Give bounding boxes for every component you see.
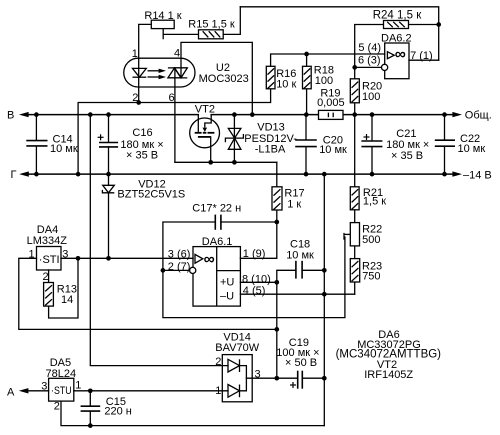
- opamp DA6.1: [190, 247, 241, 307]
- junction B rail / supply vertical: [88, 112, 93, 117]
- wire C18 right: [302, 269, 324, 271]
- svg-text:4: 4: [174, 48, 180, 60]
- wire DA5 pin1 to VD14 pin1: [74, 390, 228, 392]
- junction C18 right / -14V net: [322, 268, 327, 273]
- junction R18-R19-C20 / Obsh rail: [304, 112, 309, 117]
- wire C17 left to inverting node: [163, 222, 215, 270]
- svg-text:6: 6: [169, 92, 175, 104]
- junction VT2 gate / gate net: [208, 160, 213, 165]
- junction C16 top / B rail: [106, 112, 111, 117]
- wire R14 bottom stub: [162, 29, 164, 39]
- junction C16 bottom-VD12 / G rail: [106, 172, 111, 177]
- junction R18 top / 5(4) input: [304, 52, 309, 57]
- svg-text:R24 1,5 к: R24 1,5 к: [373, 10, 422, 22]
- node G arrow: [19, 171, 29, 176]
- resistor R23: [350, 259, 359, 282]
- optocoupler U2 body: [124, 58, 195, 87]
- svg-text:VT2: VT2: [195, 104, 215, 116]
- svg-text:100: 100: [315, 75, 333, 87]
- svg-text:2 (7): 2 (7): [168, 261, 191, 273]
- wire R15 right lead to top: [223, 7, 240, 35]
- diode VD14 dual: [222, 355, 252, 402]
- wire R21 to R22: [354, 210, 356, 223]
- svg-text:+U: +U: [220, 277, 234, 289]
- svg-text:BAV70W: BAV70W: [215, 342, 259, 354]
- svg-text:4 (5): 4 (5): [243, 285, 266, 297]
- wire C14 top lead: [35, 115, 37, 140]
- svg-text:C16: C16: [132, 127, 152, 139]
- svg-text:–U: –U: [220, 291, 234, 303]
- junction pin2 net / G rail: [76, 172, 81, 177]
- wire R14 to R15: [163, 33, 198, 35]
- capacitor C22: [435, 140, 455, 146]
- optocoupler U2 triac: [168, 68, 187, 78]
- svg-text:7 (1): 7 (1): [410, 50, 433, 62]
- junction -14V net vertical / rail: [322, 172, 327, 177]
- svg-text:1 (9): 1 (9): [243, 248, 266, 260]
- junction C22 top / Obsh rail: [442, 112, 447, 117]
- resistor R19 shunt: [319, 110, 344, 119]
- svg-text:750: 750: [362, 271, 380, 283]
- capacitor C16: [98, 134, 119, 147]
- wire gate net y162: [175, 161, 277, 163]
- junction pin 8(10) / +U net: [274, 280, 279, 285]
- wire 3(6) line: [61, 257, 193, 259]
- wire R24 right lead: [409, 24, 439, 26]
- opamp DA6.2: [382, 43, 410, 79]
- svg-text:10 к: 10 к: [276, 78, 296, 90]
- svg-text:0,005: 0,005: [317, 97, 345, 109]
- svg-text:1: 1: [132, 48, 138, 60]
- svg-text:BZT52C5V1S: BZT52C5V1S: [117, 188, 185, 200]
- resistor R15: [199, 30, 224, 39]
- wire R23 bottom to -U pin: [354, 282, 356, 294]
- junction C20 bottom / -14V rail: [304, 172, 309, 177]
- wire +U net vertical: [276, 282, 278, 378]
- svg-text:220 н: 220 н: [104, 406, 131, 418]
- junction C15 top / DA5 pin1 line: [88, 388, 93, 393]
- wire C22 top lead: [444, 115, 446, 140]
- capacitor C17: [215, 215, 221, 230]
- svg-text:MOC3023: MOC3023: [199, 73, 249, 85]
- wire C19 right: [302, 377, 324, 379]
- resistor R18: [303, 66, 312, 89]
- optocoupler U2 emission arrows: [148, 69, 167, 80]
- svg-text:∞: ∞: [395, 46, 406, 63]
- wire 6(3) input: [355, 66, 382, 68]
- svg-text:DA6.1: DA6.1: [202, 236, 233, 248]
- svg-text:C17* 22 н: C17* 22 н: [192, 203, 241, 215]
- svg-text:5 (4): 5 (4): [358, 42, 381, 54]
- wire C15 top lead: [89, 391, 91, 406]
- junction C22 bottom / -14V rail: [442, 172, 447, 177]
- svg-text:× 35 В: × 35 В: [126, 150, 158, 162]
- junction inverting input node: [161, 268, 166, 273]
- resistor R16: [266, 66, 275, 89]
- svg-text:1,5 к: 1,5 к: [363, 196, 386, 208]
- svg-text:Г: Г: [11, 169, 17, 181]
- svg-text:LM334Z: LM334Z: [27, 235, 68, 247]
- wire VT2 gate exit: [210, 137, 212, 162]
- svg-text:14: 14: [61, 294, 73, 306]
- svg-text:2: 2: [132, 92, 138, 104]
- svg-text:2: 2: [43, 271, 49, 283]
- wire R17 bottom lead: [276, 210, 278, 222]
- svg-text:∞: ∞: [204, 251, 215, 268]
- junction 4(5) line / -14V net: [322, 292, 327, 297]
- svg-text:8 (10): 8 (10): [242, 274, 271, 286]
- junction C19 right / -14V net: [322, 376, 327, 381]
- wire R21 top lead from Obsh rail: [354, 115, 356, 187]
- wire VD12 net: [108, 174, 110, 185]
- resistor R21: [350, 187, 359, 210]
- wire VD13 vertical: [233, 115, 235, 163]
- junction VD12 / 3(6) net: [106, 256, 111, 261]
- svg-text:1: 1: [215, 385, 221, 397]
- wire node pin2 net y102: [78, 89, 271, 174]
- wire R18 top lead: [306, 54, 308, 66]
- junction U2 pin4 net / Obsh rail: [250, 112, 255, 117]
- svg-text:В: В: [7, 109, 14, 121]
- wire C18 left: [277, 270, 296, 282]
- svg-text:-L1BA: -L1BA: [255, 144, 286, 156]
- transistor VT2: [190, 115, 220, 148]
- wire U2 pin6 lead down: [174, 68, 176, 162]
- resistor R22 trimmer: [344, 223, 360, 246]
- svg-text:2: 2: [54, 401, 60, 413]
- diode VD13 TVS: [225, 128, 243, 149]
- wire C16 bottom lead: [108, 147, 110, 174]
- junction C15 bottom / bottom wire: [88, 423, 93, 428]
- svg-text:R14 1 к: R14 1 к: [144, 10, 181, 22]
- wire DA5 pin3 output A: [28, 390, 49, 392]
- junction C14 top / B rail: [34, 112, 39, 117]
- resistor R17: [272, 187, 282, 210]
- junction C14 bottom / G rail: [34, 172, 39, 177]
- regulator DA5 box: [49, 378, 74, 401]
- junction U2 pin2 / y102 net: [136, 100, 141, 105]
- wire VD12 to 3(6) net: [108, 193, 110, 258]
- svg-text:IRF1405Z: IRF1405Z: [364, 369, 413, 381]
- wire 2(7) to bubble: [163, 269, 190, 271]
- capacitor C20: [295, 140, 317, 147]
- wire B rail: [27, 114, 198, 116]
- svg-text:3: 3: [255, 368, 261, 380]
- wire C14 bottom lead: [35, 147, 37, 175]
- optocoupler U2 LED: [133, 68, 147, 77]
- wire U2 pin4 lead: [181, 42, 252, 114]
- svg-text:× 35 В: × 35 В: [391, 150, 423, 162]
- wire C20 bottom lead: [305, 147, 307, 174]
- svg-text:100: 100: [362, 91, 380, 103]
- svg-text:1: 1: [75, 379, 81, 391]
- wire top feedback: [240, 7, 438, 60]
- svg-text:Общ.: Общ.: [465, 110, 492, 122]
- regulator DA4 box: [37, 247, 62, 271]
- wire DA4 pin1 net: [19, 258, 277, 329]
- wire R14 left lead to pin1: [139, 24, 152, 58]
- svg-text:3: 3: [62, 248, 68, 260]
- wire R20 bottom lead: [354, 103, 356, 115]
- svg-text:·STI: ·STI: [39, 254, 60, 266]
- junction C21 bottom / -14V rail: [370, 172, 375, 177]
- wire R24 left lead down to 6(3): [355, 25, 384, 79]
- svg-text:R15 1,5 к: R15 1,5 к: [188, 19, 235, 31]
- svg-text:2: 2: [215, 356, 221, 368]
- svg-text:× 50 В: × 50 В: [285, 357, 317, 369]
- svg-text:10 мк: 10 мк: [458, 143, 486, 155]
- wire C22 bottom lead: [444, 147, 446, 175]
- resistor R13: [44, 283, 54, 307]
- wire G / -14V rail: [27, 173, 453, 175]
- wire 8(10) line: [240, 281, 276, 283]
- wire C15 bottom lead: [89, 411, 91, 425]
- wire C21 bottom lead: [371, 147, 373, 174]
- capacitor C19: [290, 371, 302, 389]
- node B arrow: [19, 112, 29, 117]
- wire C16 top lead: [108, 115, 110, 143]
- resistor R14: [151, 20, 174, 28]
- wire C17 right to output node: [221, 221, 277, 223]
- junction R13 loop / 3(6) net: [76, 256, 81, 261]
- node -14V arrow: [452, 171, 462, 176]
- svg-text:VD13: VD13: [257, 122, 285, 134]
- wire 4(5) line: [240, 293, 354, 295]
- wire R17 top lead: [276, 162, 278, 187]
- capacitor C18: [296, 261, 302, 279]
- svg-text:6 (3): 6 (3): [358, 54, 381, 66]
- junction R24 right / feedback: [436, 22, 441, 27]
- node A arrow: [19, 388, 29, 393]
- wire DA5 pin2 to bottom: [61, 401, 324, 426]
- wire C21 top lead: [371, 115, 373, 141]
- wire U2 LED lead pin1 to pin2 node: [138, 58, 140, 102]
- wire -14 net vertical: [323, 174, 325, 426]
- wire Obsh rail right of VT2: [211, 114, 453, 116]
- junction R17-C17 / output node: [274, 220, 279, 225]
- wire VD14 pin3 to C19: [246, 377, 297, 379]
- svg-text:А: А: [7, 386, 15, 398]
- diode VD12 zener: [102, 185, 114, 193]
- wire DA4 pin2 lead: [48, 270, 50, 283]
- svg-text:500: 500: [362, 234, 380, 246]
- wire output 7(1) DA6.2: [409, 59, 439, 61]
- capacitor C21: [361, 134, 382, 147]
- svg-text:78L24: 78L24: [46, 368, 77, 380]
- svg-text:DA6.2: DA6.2: [381, 32, 412, 44]
- junction R24-R20 / 6(3) input: [352, 65, 357, 70]
- wire output 1(9): [240, 222, 276, 258]
- capacitor C14: [26, 141, 47, 146]
- svg-text:10 мк: 10 мк: [286, 249, 314, 261]
- resistor R20: [350, 79, 359, 103]
- junction VD13 top / Obsh rail: [232, 112, 237, 117]
- svg-text:–14 В: –14 В: [463, 169, 492, 181]
- wire C20 top lead: [305, 115, 307, 140]
- wire R13 loop: [49, 258, 78, 318]
- wire R22 to R23: [354, 246, 356, 259]
- wire B net vertical to VD14 pin2: [90, 115, 228, 366]
- svg-text:·STU: ·STU: [51, 385, 72, 397]
- junction DA4 pin1 net / +U net: [274, 327, 279, 332]
- wire R16 top lead and 5(4) input: [271, 54, 385, 66]
- svg-text:1 к: 1 к: [287, 198, 301, 210]
- svg-text:10 мк: 10 мк: [319, 144, 347, 156]
- junction C21 top / Obsh rail: [370, 112, 375, 117]
- svg-text:3 (6): 3 (6): [168, 248, 191, 260]
- junction R19-R20-R21 / Obsh rail: [352, 112, 357, 117]
- resistor R24: [384, 21, 409, 29]
- wire R18 bottom lead: [306, 89, 308, 115]
- node Obsh arrow: [452, 112, 462, 117]
- wire inverting net to R22 wiper: [163, 237, 345, 318]
- svg-text:10 мк: 10 мк: [50, 143, 78, 155]
- svg-text:1: 1: [29, 248, 35, 260]
- capacitor C15: [81, 406, 101, 411]
- junction VD14 pin3 / C19 left: [274, 376, 279, 381]
- svg-text:3: 3: [41, 380, 47, 392]
- junction VD13 bottom / gate net: [232, 160, 237, 165]
